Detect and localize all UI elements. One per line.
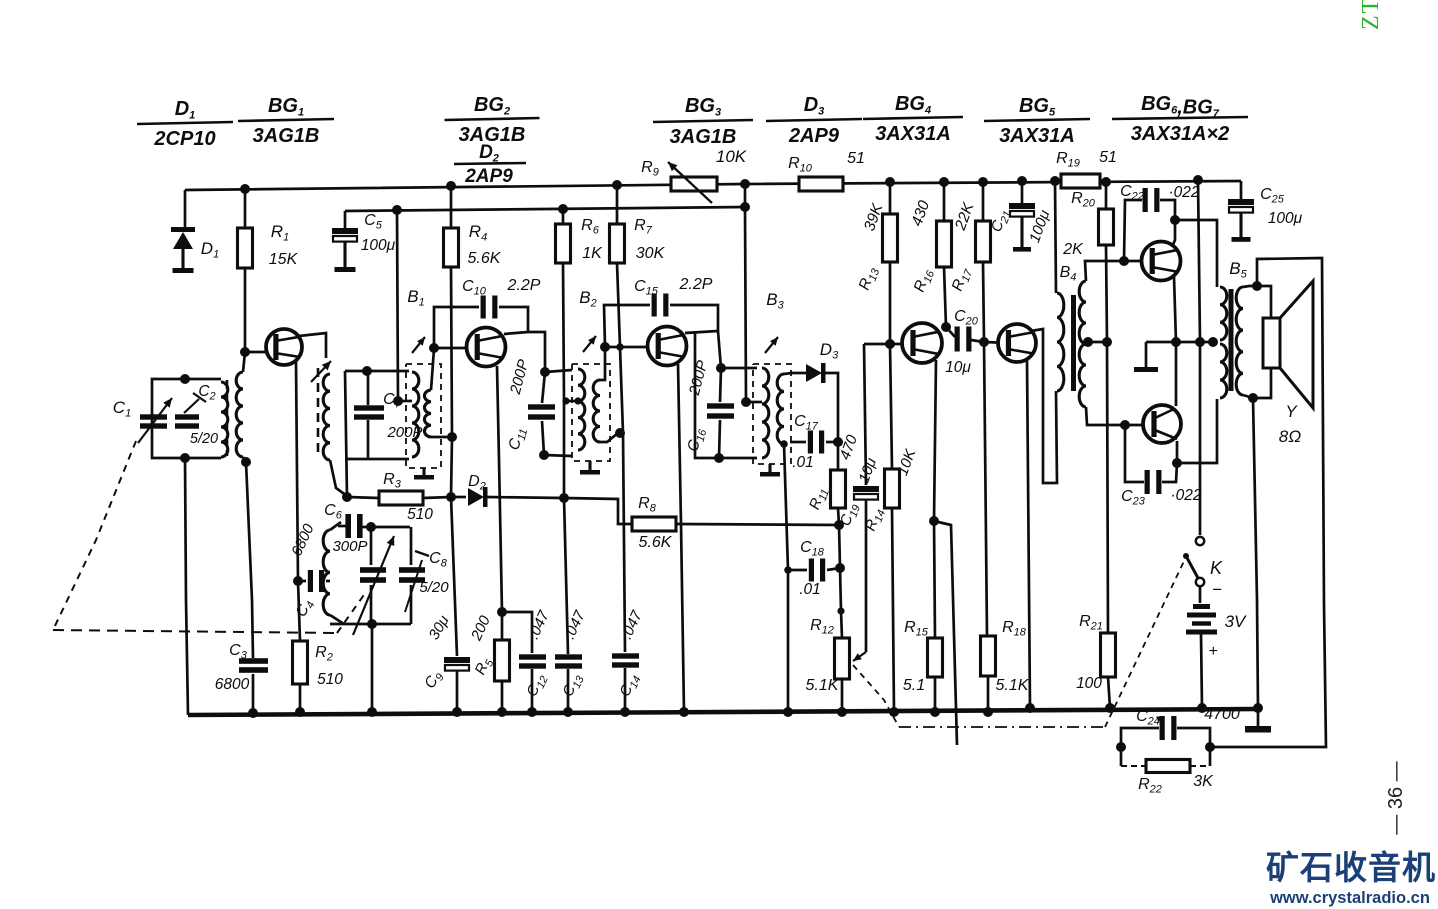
- resistor R3: [347, 497, 379, 498]
- capacitor C25 electrolytic: [1240, 181, 1243, 199]
- terminal bar below C5: [335, 267, 356, 272]
- core adjust arrow B1: [412, 337, 425, 353]
- svg-text:5.6K: 5.6K: [639, 534, 673, 551]
- junction rail1/R20: [1101, 177, 1111, 187]
- wire emitter to feedback line: [934, 521, 957, 745]
- junction rail1/R9-right node: [740, 179, 750, 189]
- capacitor C18: [788, 569, 807, 572]
- wire C7 tank top: [345, 370, 409, 373]
- ground stub: [1145, 342, 1148, 367]
- capacitor C19 electrolytic: [864, 344, 866, 485]
- terminal bar below C21: [1013, 247, 1031, 252]
- wire B4 center tap: [1086, 341, 1107, 344]
- junction rail1/R7: [612, 180, 622, 190]
- wire BG2 collector: [504, 332, 528, 334]
- junction rail/BG5 emitter: [1025, 703, 1035, 713]
- junction rail1/battery column: [1193, 175, 1203, 185]
- wire rail1-rail2 link: [744, 184, 747, 207]
- transistor BG6: [1142, 242, 1181, 281]
- wire R20col to R21: [1107, 342, 1108, 633]
- wire BG2 base: [434, 347, 476, 350]
- wire R7 column lower: [620, 347, 625, 652]
- svg-text:100μ: 100μ: [361, 237, 396, 254]
- junction R3/R4-column: [446, 492, 456, 502]
- capacitor C16: [720, 368, 721, 402]
- wire D3 to column: [824, 373, 838, 442]
- resistor R20: [1105, 182, 1108, 209]
- wire top supply rail: [185, 181, 1241, 190]
- junction C18/R12 column: [835, 563, 845, 573]
- capacitor C20: [946, 327, 955, 337]
- resistor R13: [889, 182, 892, 214]
- wire BG6 base: [1124, 260, 1152, 263]
- svg-text:2CP10: 2CP10: [153, 128, 215, 150]
- resistor R14: [890, 344, 892, 469]
- junction BG3 base node: [600, 342, 610, 352]
- wire R11 to C18 node: [839, 525, 840, 568]
- resistor R12 volume: [841, 611, 842, 638]
- svg-text:2K: 2K: [1062, 241, 1084, 258]
- ground bottom right bar: [1245, 726, 1271, 733]
- wire bus to switch: [1199, 342, 1202, 535]
- svg-text:3V: 3V: [1225, 612, 1247, 631]
- junction C6/tank top: [366, 522, 376, 532]
- wire speaker bottom to rail: [1253, 398, 1258, 708]
- wire B1 tap: [398, 400, 412, 403]
- junction rail/tank: [367, 707, 377, 717]
- junction tank top/C2: [180, 374, 190, 384]
- capacitor C2 trimmer: [175, 414, 199, 419]
- capacitor C12 branch: [502, 612, 532, 653]
- wire BG4 emitter: [934, 360, 936, 521]
- junction R1/BG1 base: [240, 347, 250, 357]
- junction B3 tap: [741, 397, 751, 407]
- svg-text:300P: 300P: [332, 538, 367, 555]
- wire battery column upper: [1198, 180, 1200, 342]
- wire BG5 emitter: [1027, 360, 1030, 708]
- wire left drop to D1: [184, 190, 187, 228]
- svg-text:3K: 3K: [1193, 773, 1214, 790]
- svg-text:10μ: 10μ: [945, 359, 971, 376]
- switch K bottom contact: [1196, 578, 1204, 586]
- junction rail2 end node: [740, 202, 750, 212]
- resistor R8: [632, 517, 676, 531]
- svg-text:2.2P: 2.2P: [679, 276, 713, 293]
- switch K lever: [1186, 556, 1198, 578]
- wire C7 tank bottom: [346, 458, 409, 461]
- junction rail/speaker return: [1253, 703, 1263, 713]
- junction D2-line/R6 column: [559, 493, 569, 503]
- svg-text:— 36 —: — 36 —: [1385, 761, 1407, 834]
- wire tank bottom to rail: [371, 624, 374, 712]
- wire B1 secondary bottom: [431, 436, 452, 439]
- resistor R7: [616, 185, 619, 224]
- junction rail1/B4 primary: [1050, 176, 1060, 186]
- svg-text:5/20: 5/20: [190, 431, 218, 447]
- wire feedback from speaker top: [1210, 258, 1326, 747]
- capacitor C9 electrolytic: [444, 657, 470, 663]
- svg-text:5.1: 5.1: [903, 677, 925, 694]
- junction BG7 collector node: [1172, 458, 1182, 468]
- junction secondary bottom: [241, 457, 251, 467]
- junction B3 sec bottom: [780, 440, 788, 448]
- coil B3 secondary: [777, 374, 784, 444]
- transistor BG1: [266, 329, 302, 365]
- transformer B3 box dashed: [753, 364, 791, 464]
- junction C24 box left: [1116, 742, 1126, 752]
- wire collector node to B5 top: [1175, 220, 1217, 287]
- junction R3/osc node: [342, 492, 352, 502]
- resistor R10: [799, 177, 843, 191]
- svg-text:6800: 6800: [215, 676, 250, 693]
- coil antenna primary: [221, 382, 228, 457]
- junction C24 box right: [1205, 742, 1215, 752]
- svg-text:510: 510: [317, 671, 343, 688]
- junction C11 top: [540, 367, 550, 377]
- svg-text:8Ω: 8Ω: [1279, 427, 1301, 446]
- coil B5 primary lower: [1220, 344, 1227, 398]
- coil B2 primary: [578, 369, 585, 450]
- transistor BG2: [467, 328, 506, 367]
- wire collector to C11 top: [528, 332, 545, 372]
- junction BG7 base node: [1120, 420, 1130, 430]
- junction battery column/bus: [1195, 337, 1205, 347]
- capacitor C5 electrolytic: [344, 211, 347, 228]
- resistor R21: [1101, 633, 1116, 677]
- wire BG5 base: [984, 342, 1009, 343]
- junction C4/emitter column: [293, 576, 303, 586]
- wire C18 node to R12: [840, 568, 841, 611]
- wire BG1 collector: [299, 333, 326, 358]
- coil B1 secondary: [424, 390, 431, 437]
- wire tank top: [362, 526, 410, 529]
- resistor R17: [982, 182, 985, 221]
- wire C16 to B3 primary bottom: [719, 457, 757, 460]
- wire B3 feed from rails: [745, 207, 746, 402]
- junction rail2/B1 feed: [392, 205, 402, 215]
- wire BG6 emitter: [1174, 277, 1176, 342]
- junction BG4 collector/R16: [941, 322, 951, 332]
- core B4: [1071, 295, 1076, 391]
- wire to speaker top: [1257, 286, 1271, 318]
- wire B4 sec bottom to BG7 base: [1086, 407, 1125, 425]
- core antenna transformer dashed: [226, 380, 229, 456]
- junction rail1/R13: [885, 177, 895, 187]
- ground B2: [588, 461, 591, 470]
- wire collector to B5 bottom: [1177, 399, 1217, 463]
- wire AGC jog: [564, 498, 632, 524]
- svg-text:3AX31A: 3AX31A: [875, 123, 951, 145]
- wire BG1 base: [245, 351, 277, 354]
- small arrow C24: [1156, 716, 1163, 722]
- resistor R5: [501, 612, 504, 640]
- wire B4 sec top to BG6 base: [1085, 261, 1124, 281]
- transformer B2 box dashed: [572, 364, 610, 461]
- wire secondary bottom down to C3: [246, 462, 253, 658]
- wire C7-loop left leg: [345, 371, 347, 497]
- svg-text:K: K: [1210, 558, 1223, 578]
- capacitor C24: [1121, 728, 1159, 747]
- junction R7/BG3 base: [616, 343, 624, 351]
- junction rail1/R17: [978, 177, 988, 187]
- wire gang link dashed: [53, 441, 136, 630]
- junction speaker bottom node: [1248, 393, 1258, 403]
- junction rail/R2: [295, 707, 305, 717]
- junction rail/R12: [837, 707, 847, 717]
- svg-text:100: 100: [1076, 675, 1102, 692]
- junction B4 tap/R20 column: [1102, 337, 1112, 347]
- resistor R11: [837, 442, 840, 470]
- wire second rail C5-to-R9 node: [345, 207, 745, 211]
- wire tank bottom: [330, 623, 411, 626]
- junction tank bottom/C2: [180, 453, 190, 463]
- coil oscillator primary variable: [311, 361, 331, 382]
- wire collector to C16 top: [718, 331, 721, 368]
- resistor R1: [244, 189, 247, 228]
- wire B5 sec top: [1243, 286, 1257, 287]
- wire battery to rail: [1201, 634, 1202, 708]
- coil B5 secondary: [1236, 287, 1243, 395]
- junction rail1/C21: [1017, 176, 1027, 186]
- coil B4 secondary: [1079, 281, 1086, 407]
- svg-text:5/20: 5/20: [419, 579, 449, 596]
- junction C16 top: [716, 363, 726, 373]
- terminal bar below D1: [173, 268, 194, 273]
- wire B4 primary feed: [1055, 181, 1056, 293]
- svg-text:15K: 15K: [269, 251, 299, 268]
- svg-text:矿石收音机: 矿石收音机: [1266, 849, 1436, 886]
- wire B2 tap from R6: [564, 400, 578, 403]
- junction rail/C12: [527, 707, 537, 717]
- svg-text:510: 510: [407, 506, 433, 523]
- junction B5 tap: [1208, 337, 1218, 347]
- svg-text:www.crystalradio.cn: www.crystalradio.cn: [1269, 889, 1430, 907]
- svg-text:3AX31A: 3AX31A: [999, 125, 1075, 147]
- capacitor C17: [790, 441, 806, 444]
- core adjust arrow B2: [583, 336, 596, 352]
- ground bar: [1134, 367, 1158, 372]
- speaker driver: [1263, 318, 1280, 368]
- junction rail/R5: [497, 707, 507, 717]
- svg-text:.01: .01: [792, 454, 814, 471]
- svg-text:5.6K: 5.6K: [468, 250, 502, 267]
- junction rail/BG3 emitter: [679, 707, 689, 717]
- wire C11 to B2 primary bottom: [544, 455, 572, 456]
- capacitor C10 loop: [434, 307, 479, 348]
- coil oscillator feedback: [323, 530, 330, 615]
- wire BG7 emitter from common: [1175, 342, 1178, 406]
- junction rail1/R16: [939, 177, 949, 187]
- junction rail/C9: [452, 707, 462, 717]
- junction rail/C14: [620, 707, 630, 717]
- junction tank bottom: [367, 619, 377, 629]
- wire B5 sec bottom: [1243, 395, 1253, 398]
- battery B 3V: [1193, 604, 1210, 609]
- svg-text:−: −: [1212, 580, 1222, 599]
- resistor R2: [298, 581, 300, 641]
- junction C7 top: [362, 366, 372, 376]
- junction rail/R21: [1105, 703, 1115, 713]
- wire collector down-leg to tank bottom: [695, 331, 719, 458]
- svg-text:+: +: [1208, 643, 1217, 660]
- coil B2 secondary: [593, 380, 600, 442]
- svg-text:2AP9: 2AP9: [464, 166, 513, 187]
- capacitor C8 trimmer: [399, 567, 425, 573]
- core oscillator dashed: [317, 368, 320, 456]
- svg-text:51: 51: [1099, 149, 1117, 166]
- wire B1 feed from rail2: [397, 210, 398, 401]
- transformer B1 box dashed: [406, 364, 441, 468]
- wire BG3 base: [605, 346, 659, 349]
- wire D2 to R6 column: [486, 497, 564, 498]
- svg-text:1K: 1K: [582, 245, 603, 262]
- resistor R6: [562, 209, 565, 224]
- svg-text:3AG1B: 3AG1B: [670, 126, 737, 148]
- wire B3 secondary top to D3: [784, 373, 806, 374]
- capacitor C22 loop: [1124, 200, 1142, 261]
- ground B3: [768, 464, 771, 472]
- capacitor C15 loop: [604, 305, 650, 347]
- resistor R15: [934, 521, 935, 638]
- svg-text:30K: 30K: [636, 245, 666, 262]
- svg-text:5.1K: 5.1K: [806, 677, 840, 694]
- coil B3 primary: [762, 368, 769, 458]
- resistor R16: [943, 182, 946, 221]
- junction emitter/R5/C12: [497, 607, 507, 617]
- wire BG7 base: [1125, 424, 1154, 427]
- ground B1: [422, 468, 425, 475]
- terminal bar below C25: [1232, 237, 1251, 242]
- wire B2 secondary top to BG3 base: [600, 348, 605, 380]
- wire to D2: [451, 496, 466, 499]
- core B5: [1229, 289, 1234, 391]
- resistor R9 variable: [671, 177, 717, 191]
- resistor R18: [981, 636, 996, 676]
- junction R11/R8 line: [834, 520, 844, 530]
- svg-text:5.1K: 5.1K: [996, 677, 1030, 694]
- coil B5 primary upper: [1220, 287, 1227, 340]
- wire C11 to B2 primary top: [545, 370, 572, 372]
- junction C11 bottom: [539, 450, 549, 460]
- wire tank box: [152, 379, 221, 458]
- wire BG2 emitter column: [497, 366, 502, 612]
- transistor BG3: [648, 327, 687, 366]
- junction rail/R18: [983, 707, 993, 717]
- capacitor C21 electrolytic: [1021, 181, 1024, 203]
- wire B1 secondary top to BG2 base: [431, 349, 434, 390]
- capacitor C14: [612, 653, 639, 658]
- diode D2: [468, 488, 484, 506]
- junction rail1/R4: [446, 181, 456, 191]
- junction B1 tap: [393, 396, 403, 406]
- junction rail/B3 sec: [783, 707, 793, 717]
- junction BG6 collector node: [1170, 215, 1180, 225]
- svg-text:Y: Y: [1285, 402, 1298, 421]
- svg-text:2AP9: 2AP9: [788, 125, 840, 147]
- speaker horn: [1280, 281, 1313, 408]
- junction rail1/R1: [240, 184, 250, 194]
- capacitor C6: [338, 525, 346, 528]
- junction B1 sec bottom/R4 column: [447, 432, 457, 442]
- wire BG6 collector: [1172, 220, 1175, 247]
- svg-text:2.2P: 2.2P: [507, 277, 541, 294]
- wire to speaker bottom: [1253, 368, 1271, 398]
- capacitor C23 loop: [1125, 425, 1144, 482]
- junction rail/R14: [889, 707, 899, 717]
- coil B4 primary: [1057, 293, 1064, 391]
- junction B4 tap left: [1083, 337, 1093, 347]
- junction C18 left: [784, 566, 792, 574]
- ground bottom right stub: [1257, 709, 1260, 726]
- capacitor C3: [239, 658, 268, 664]
- wire BG7 collector: [1176, 441, 1179, 463]
- wire C4 series: [299, 580, 306, 583]
- diode D3: [806, 364, 822, 382]
- wire switch to battery: [1199, 586, 1202, 603]
- wire B2 secondary bottom: [600, 433, 618, 442]
- wire R6col to C13: [564, 498, 568, 654]
- svg-text:100μ: 100μ: [1268, 210, 1303, 227]
- transistor BG5: [998, 324, 1036, 362]
- svg-text:ZTU: ZTU: [1358, 0, 1384, 30]
- resistor R22: [1120, 747, 1123, 766]
- transistor BG4: [902, 323, 942, 363]
- junction BG2 base node: [429, 343, 439, 353]
- capacitor C4b variable gang: [360, 567, 386, 573]
- wire BG5 collector route: [1031, 329, 1057, 483]
- junction rail/C13: [563, 707, 573, 717]
- junction common emitter node: [1171, 337, 1181, 347]
- svg-text:51: 51: [847, 150, 865, 167]
- svg-text:.01: .01: [799, 581, 821, 598]
- svg-text:·022: ·022: [1168, 184, 1199, 201]
- wire R17col to R18: [984, 342, 987, 636]
- svg-text:3AX31A×2: 3AX31A×2: [1131, 123, 1229, 145]
- junction BG4 base: [885, 339, 895, 349]
- svg-text:·022: ·022: [1170, 487, 1201, 504]
- junction rail/C3: [248, 708, 258, 718]
- capacitor C13: [555, 654, 582, 659]
- coil antenna secondary: [236, 372, 243, 457]
- junction speaker top node: [1252, 281, 1262, 291]
- junction C16 bottom: [714, 453, 724, 463]
- junction B2 sec bottom/R7 column: [615, 428, 625, 438]
- junction BG5 base node: [979, 337, 989, 347]
- switch K top contact: [1196, 537, 1204, 545]
- junction rail/R15: [930, 707, 940, 717]
- capacitor C7: [367, 371, 370, 405]
- wire common emitter bus: [1146, 341, 1213, 344]
- junction BG6 base node: [1119, 256, 1129, 266]
- resistor R19: [1061, 174, 1100, 188]
- junction C17/R11: [833, 437, 843, 447]
- svg-text:10K: 10K: [716, 147, 747, 166]
- svg-text:3AG1B: 3AG1B: [253, 125, 320, 147]
- capacitor C1 variable: [140, 414, 167, 419]
- wire B3 tap: [746, 401, 762, 404]
- wire BG1 emitter to R2: [296, 362, 298, 582]
- wire BG4 base: [864, 343, 913, 346]
- wire BG3 emitter column: [678, 364, 684, 712]
- wiper arrow R12: [853, 652, 866, 661]
- coil B1 primary: [412, 372, 419, 457]
- core adjust arrow B3: [765, 337, 778, 353]
- junction B2 tap: [562, 397, 569, 404]
- resistor R4: [450, 186, 453, 228]
- junction rail/battery: [1197, 703, 1207, 713]
- wire B3 secondary bottom col: [784, 444, 788, 712]
- wire C16 to B3 primary top: [721, 367, 757, 370]
